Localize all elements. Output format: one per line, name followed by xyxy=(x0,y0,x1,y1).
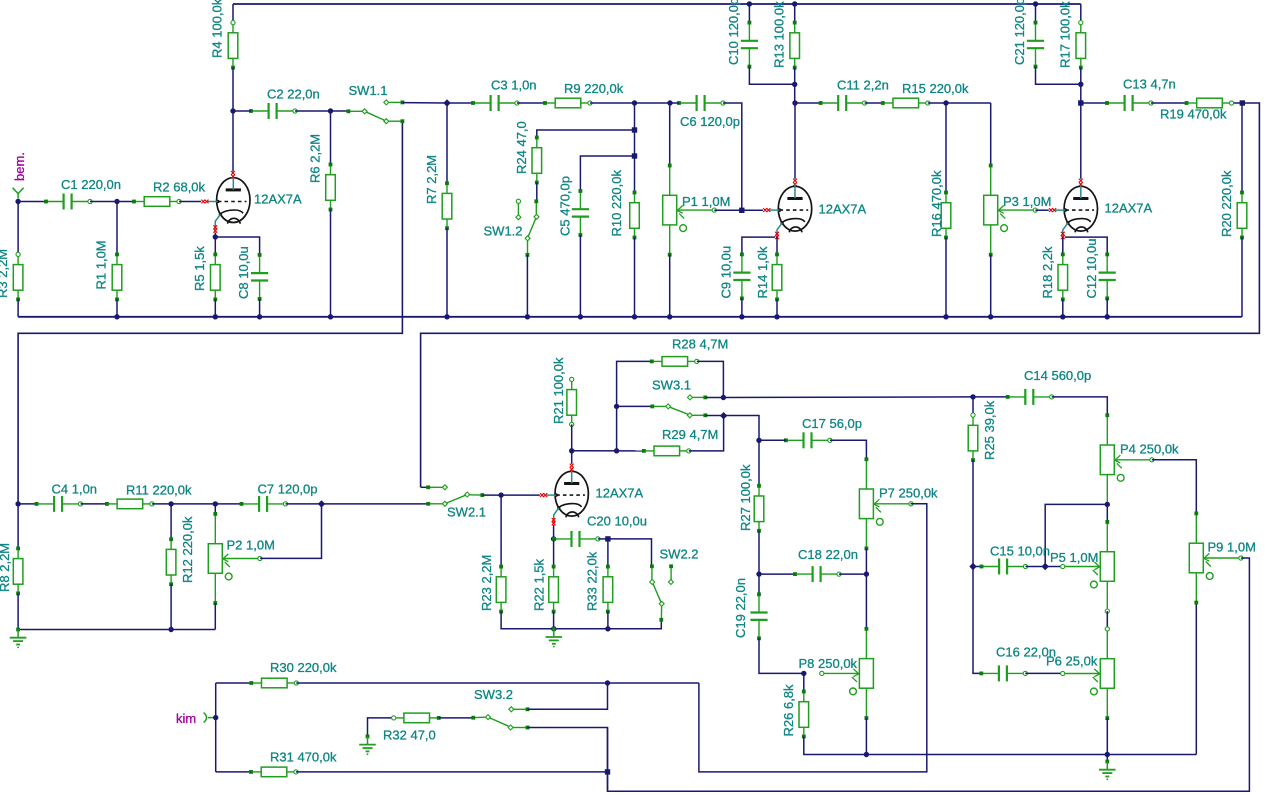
wire SW3.2 upper throw to R30 line xyxy=(528,683,608,709)
resistor R4 xyxy=(228,21,238,70)
junction C21 at top rail xyxy=(1033,1,1038,6)
wire SW1.1 to stage-3 routing (line A) xyxy=(18,121,402,504)
switch SW2.2 xyxy=(650,564,674,621)
wire R16 top xyxy=(945,103,947,193)
label C14 xyxy=(1024,368,1091,383)
junction C8 at rail xyxy=(257,314,262,319)
wire R25 column to C16 xyxy=(973,567,981,674)
label V2 xyxy=(819,202,867,217)
svg-text:P6 25,0k: P6 25,0k xyxy=(1046,654,1098,669)
svg-text:R15 220,0k: R15 220,0k xyxy=(902,81,969,96)
wire R13 bottom xyxy=(794,68,796,103)
resistor R28 xyxy=(650,357,699,367)
wire R8 top xyxy=(17,504,19,549)
wire P2 wiper riser xyxy=(260,504,321,559)
svg-text:R23 2,2M: R23 2,2M xyxy=(479,555,494,611)
wire P8 bottom xyxy=(865,718,867,755)
capacitor C14 xyxy=(1006,389,1054,405)
pin marker V4 grid xyxy=(540,493,547,497)
potentiometer P7 xyxy=(859,457,913,550)
junction P2 tap xyxy=(213,501,218,506)
potentiometer P4 xyxy=(1100,413,1154,506)
resistor R25 xyxy=(968,413,978,462)
wire input to C1 xyxy=(18,201,46,203)
wire R32 ground leg xyxy=(368,718,394,737)
wire R17 top xyxy=(1080,4,1082,23)
wire SW1.2 common to rail xyxy=(526,255,528,317)
svg-text:C3 1,0n: C3 1,0n xyxy=(491,78,537,93)
label C17 xyxy=(802,416,862,431)
wire P7 bottom xyxy=(865,548,867,574)
wire C1 to R2 xyxy=(90,201,134,203)
junction R25/C15 node xyxy=(969,563,976,570)
wire R1 top xyxy=(116,202,118,255)
switch SW3.2 xyxy=(471,707,529,730)
potentiometer P5 xyxy=(1061,520,1115,613)
svg-text:R11 220,0k: R11 220,0k xyxy=(126,483,192,498)
resistor R15 xyxy=(881,98,930,108)
junction P4 bottom node xyxy=(1105,502,1110,507)
wire P3 wiper to V3 grid xyxy=(1035,209,1049,211)
label R13 xyxy=(772,1,787,68)
potentiometer P2 xyxy=(208,512,262,605)
resistor R14 xyxy=(772,253,782,302)
junction R26/P8 wiper node xyxy=(801,671,806,676)
wire R7 top xyxy=(446,103,448,183)
svg-text:R28 4,7M: R28 4,7M xyxy=(672,337,728,352)
junction C17/R27 node xyxy=(756,438,761,443)
resistor R31 xyxy=(249,767,298,777)
wire C12 bottom xyxy=(1106,298,1108,316)
capacitor C21 xyxy=(1027,21,1044,69)
wire R20 top xyxy=(1241,103,1243,193)
wire feedback column xyxy=(617,361,652,450)
junction SW3.1 common tap xyxy=(614,404,619,409)
pin marker V3 grid xyxy=(1049,208,1056,212)
capacitor C6 xyxy=(677,95,725,111)
capacitor C7 xyxy=(240,496,288,512)
resistor R8 xyxy=(13,547,23,596)
label R30 xyxy=(270,660,337,675)
svg-text:C20 10,0u: C20 10,0u xyxy=(587,514,647,529)
switch SW3.1 xyxy=(650,395,707,418)
junction V3 plate node xyxy=(1078,100,1083,105)
wire C20 to junction xyxy=(598,538,608,540)
junction C21/R17 node xyxy=(1078,82,1083,87)
wire C3 to R9 xyxy=(517,102,545,104)
wire P3 top xyxy=(990,103,992,166)
junction C5 tap xyxy=(632,153,637,158)
svg-text:kim: kim xyxy=(176,711,196,726)
resistor R9 xyxy=(543,98,592,108)
label SW3.2 xyxy=(474,687,513,702)
wire P7 wiper return xyxy=(699,504,927,772)
wire R25 bottom xyxy=(972,460,974,566)
svg-text:C1 220,0n: C1 220,0n xyxy=(61,177,121,192)
label R23 xyxy=(479,555,494,611)
svg-text:R2 68,0k: R2 68,0k xyxy=(153,180,206,195)
junction R33 at ground line xyxy=(605,626,610,631)
junction R12 tap xyxy=(168,501,173,506)
wire node to C3 xyxy=(447,102,473,104)
label R5 xyxy=(192,246,207,291)
capacitor C11 xyxy=(819,95,867,111)
capacitor C8 xyxy=(251,253,268,301)
svg-text:C13 4,7n: C13 4,7n xyxy=(1123,77,1176,92)
resistor R29 xyxy=(642,446,691,456)
svg-text:C8 10,0u: C8 10,0u xyxy=(236,246,251,299)
wire R16 bottom xyxy=(945,238,947,317)
wire bottom common rail xyxy=(18,316,1242,318)
svg-text:R27 100,0k: R27 100,0k xyxy=(738,464,753,531)
junction R1 at rail xyxy=(114,314,119,319)
wire R12 top xyxy=(170,504,172,539)
pin marker V1 cathode xyxy=(213,225,217,232)
label C20 xyxy=(587,514,647,529)
wire C17 to P7 top xyxy=(830,440,867,459)
junction ground tap stage4 xyxy=(551,626,556,631)
capacitor C9 xyxy=(733,253,750,301)
svg-text:R20 220,0k: R20 220,0k xyxy=(1219,170,1234,237)
svg-text:P4 250,0k: P4 250,0k xyxy=(1120,442,1179,457)
label R19 xyxy=(1160,107,1227,122)
wire C18 to P8 column xyxy=(839,573,866,575)
label P9 xyxy=(1208,540,1256,555)
wire node to C18 xyxy=(759,573,795,575)
wire cathode to C9 xyxy=(742,237,775,254)
resistor R26 xyxy=(799,690,809,739)
label C11 xyxy=(837,78,889,93)
label R28 xyxy=(672,337,728,352)
wire R6 top xyxy=(330,111,332,165)
wire V4 cathode xyxy=(553,525,555,539)
junction R31/SW3.2 node xyxy=(605,769,610,774)
wire line B to SW2.1 upper throw xyxy=(421,486,429,488)
label R31 xyxy=(270,750,337,765)
wire R7 bottom xyxy=(446,228,448,317)
label kim xyxy=(176,711,196,726)
wire lower throw to C17 column xyxy=(705,416,759,441)
label R18 xyxy=(1040,246,1055,299)
potentiometer P1 xyxy=(663,164,717,257)
wire V3 plate node to C13 xyxy=(1081,102,1107,104)
junction V4 plate node xyxy=(569,448,574,453)
junction R12 at ground line xyxy=(168,627,173,632)
wire P1 bottom xyxy=(669,255,671,317)
wire V3 plate xyxy=(1080,103,1082,179)
junction kim node xyxy=(213,715,218,720)
label R20 xyxy=(1219,170,1234,237)
wire cathode to C8 xyxy=(215,237,259,255)
svg-text:R9 220,0k: R9 220,0k xyxy=(564,81,624,96)
resistor R16 xyxy=(941,191,951,240)
label R1 xyxy=(93,240,108,289)
pin marker V2 plate xyxy=(793,179,797,186)
svg-text:C9 10,0u: C9 10,0u xyxy=(719,246,734,299)
resistor R17 xyxy=(1076,21,1086,70)
potentiometer P6 xyxy=(1061,627,1115,720)
wire R9 to branch column xyxy=(590,102,670,104)
wire C2 left stub xyxy=(233,110,251,112)
wire R33 top xyxy=(607,539,609,567)
label R25 xyxy=(982,400,997,460)
resistor R21 xyxy=(567,377,577,426)
resistor R18 xyxy=(1058,253,1068,302)
label bem. xyxy=(12,152,27,181)
wire C20 node to SW2.2 xyxy=(608,539,652,566)
junction branch column top xyxy=(632,100,637,105)
wire R23 top xyxy=(500,495,502,566)
wire R30 line xyxy=(296,682,699,684)
wire R20 bottom xyxy=(1241,238,1243,317)
wire C10 top xyxy=(748,4,750,23)
label C4 xyxy=(52,482,98,497)
wire R8 bottom xyxy=(17,593,19,629)
pin marker V2 cathode xyxy=(775,232,779,239)
junction C15/P4-bottom node xyxy=(1042,563,1049,570)
svg-text:P8 250,0k: P8 250,0k xyxy=(799,656,858,671)
wire V1 cathode xyxy=(214,233,216,238)
wire cathode to C12 xyxy=(1065,237,1107,254)
svg-text:R33 22,0k: R33 22,0k xyxy=(585,551,600,611)
potentiometer P9 xyxy=(1189,512,1243,605)
junction C12 at rail xyxy=(1105,314,1110,319)
resistor R12 xyxy=(166,537,176,586)
resistor R6 xyxy=(326,163,336,212)
wire wiper to V2 grid xyxy=(714,209,763,211)
capacitor C13 xyxy=(1105,95,1153,111)
wire R11 to C7 xyxy=(152,503,242,505)
junction feedback column base xyxy=(614,448,619,453)
label R26 xyxy=(781,684,796,737)
wire R18 bottom xyxy=(1062,299,1064,316)
wire C14 to P4 xyxy=(1052,397,1108,415)
resistor R30 xyxy=(249,678,298,688)
svg-text:R22 1,5k: R22 1,5k xyxy=(531,558,546,611)
wire plate line xyxy=(572,450,644,452)
tube V3 xyxy=(1055,184,1098,238)
wire input to C4 xyxy=(18,503,36,505)
wire branch column xyxy=(634,103,636,193)
capacitor C17 xyxy=(784,432,832,448)
junction SW3.1 lower node xyxy=(720,412,727,419)
wire cathode to R18 xyxy=(1062,237,1064,254)
wire C19 top xyxy=(758,574,760,594)
resistor R1 xyxy=(112,253,122,302)
svg-text:R18 2,2k: R18 2,2k xyxy=(1040,246,1055,299)
capacitor C20 xyxy=(552,531,600,547)
junction C5 at rail xyxy=(578,314,583,319)
svg-text:SW2.2: SW2.2 xyxy=(660,547,699,562)
svg-text:R12 220,0k: R12 220,0k xyxy=(180,516,195,583)
junction R25/C14 node xyxy=(970,394,975,399)
resistor R27 xyxy=(754,484,764,533)
resistor R2 xyxy=(132,197,181,207)
label R2 xyxy=(153,180,206,195)
svg-text:12AX7A: 12AX7A xyxy=(596,486,644,501)
label R14 xyxy=(755,246,770,299)
wire P4 bottom to C15 column xyxy=(1045,504,1107,566)
svg-text:C14 560,0p: C14 560,0p xyxy=(1024,368,1091,383)
wire R3 top xyxy=(17,202,19,255)
svg-text:SW3.1: SW3.1 xyxy=(652,378,691,393)
wire stage4 ground line xyxy=(501,620,661,629)
ground G-stage4 xyxy=(546,627,563,648)
wire C15 to P5 wiper xyxy=(1026,566,1063,568)
wire P2 top stub xyxy=(214,504,216,514)
wire cathode to R14 xyxy=(776,237,778,254)
tube V4 xyxy=(546,469,589,523)
junction R13 at top rail xyxy=(792,1,797,6)
wire R23 bottom dogleg xyxy=(501,612,554,629)
wire P9 wiper return xyxy=(608,558,1250,791)
wire R10 bottom xyxy=(634,238,636,317)
resistor R24 xyxy=(532,136,542,185)
wire SW1.1 upper throw to R7 node xyxy=(402,102,447,104)
label C19 xyxy=(733,578,748,638)
wire C21 top xyxy=(1035,4,1037,23)
wire C8 bottom xyxy=(259,299,261,317)
label R6 xyxy=(308,134,323,183)
wire R28 right dogleg xyxy=(697,361,724,397)
svg-text:R31 470,0k: R31 470,0k xyxy=(270,750,337,765)
label C16 xyxy=(996,645,1056,660)
pin marker V3 plate xyxy=(1079,179,1083,186)
resistor R33 xyxy=(603,565,613,614)
label R3 xyxy=(0,249,10,298)
svg-text:SW1.2: SW1.2 xyxy=(484,224,523,239)
label C9 xyxy=(719,246,734,299)
capacitor C4 xyxy=(35,496,83,512)
junction R23 tap xyxy=(498,492,503,497)
label R9 xyxy=(564,81,624,96)
wire node to C17 xyxy=(759,439,786,441)
label P6 xyxy=(1046,654,1098,669)
label C5 xyxy=(558,176,573,236)
svg-text:R1 1,0M: R1 1,0M xyxy=(93,240,108,289)
svg-text:C5 470,0p: C5 470,0p xyxy=(558,176,573,236)
wire R27 top stub xyxy=(758,440,760,486)
wire C5 branch xyxy=(580,156,634,191)
wire R19 output to SW2.1 routing (line B) xyxy=(421,103,1260,487)
junction C18 left node xyxy=(756,571,761,576)
junction R18 at rail xyxy=(1060,314,1065,319)
svg-text:R21 100,0k: R21 100,0k xyxy=(551,357,566,424)
label R22 xyxy=(531,558,546,611)
wire R27 bottom xyxy=(758,531,760,574)
wire C4 to R11 xyxy=(81,503,107,505)
svg-text:SW1.1: SW1.1 xyxy=(349,83,388,98)
label R17 xyxy=(1058,1,1073,68)
wire C2 to SW1.1 node xyxy=(295,110,348,112)
resistor R11 xyxy=(105,499,154,509)
svg-text:bem.: bem. xyxy=(12,152,27,181)
wire R6 bottom xyxy=(330,210,332,317)
tube V1 xyxy=(207,176,250,230)
wire R29 right dogleg xyxy=(689,416,724,451)
svg-text:R19 470,0k: R19 470,0k xyxy=(1160,107,1227,122)
label R12 xyxy=(180,516,195,583)
label C3 xyxy=(491,78,537,93)
junction V2 plate node xyxy=(792,100,797,105)
ground G-stage3 xyxy=(10,628,27,649)
junction R7 at rail xyxy=(444,314,449,319)
switch SW2.1 xyxy=(426,485,484,507)
junction SW1.2 at rail xyxy=(525,314,530,319)
label R8 xyxy=(0,543,12,592)
wire R14 bottom xyxy=(776,299,778,316)
label C21 xyxy=(1012,0,1027,65)
label C1 xyxy=(61,177,121,192)
pin marker V4 cathode xyxy=(552,518,556,525)
wire C16 to P6 wiper xyxy=(1025,672,1062,674)
capacitor C5 xyxy=(572,189,589,237)
svg-text:C17 56,0p: C17 56,0p xyxy=(802,416,862,431)
svg-text:SW2.1: SW2.1 xyxy=(447,505,486,520)
wire R33 bottom xyxy=(607,612,609,629)
label P4 xyxy=(1120,442,1179,457)
capacitor C10 xyxy=(741,21,758,69)
wire V2 plate node to C11 xyxy=(795,102,821,104)
svg-text:R5 1,5k: R5 1,5k xyxy=(192,246,207,291)
label R4 xyxy=(210,0,225,58)
junction C2/R6/SW1.1 node xyxy=(328,108,333,113)
junction R7/SW1.1 node xyxy=(443,99,450,106)
resistor R19 xyxy=(1185,98,1234,108)
svg-text:R25 39,0k: R25 39,0k xyxy=(982,400,997,460)
svg-text:C6 120,0p: C6 120,0p xyxy=(680,114,740,129)
label C8 xyxy=(236,246,251,299)
svg-text:12AX7A: 12AX7A xyxy=(254,192,302,207)
wire ground stub xyxy=(1106,755,1108,762)
svg-text:R17 100,0k: R17 100,0k xyxy=(1058,1,1073,68)
svg-text:P5 1,0M: P5 1,0M xyxy=(1050,550,1098,565)
wire R21 bottom xyxy=(571,424,573,450)
wire R4 bottom to plate node xyxy=(232,68,234,111)
wire node to C15 xyxy=(973,566,982,568)
pin marker V1 plate xyxy=(231,171,235,178)
wire C13 to R19 xyxy=(1151,102,1187,104)
label V4 xyxy=(596,486,644,501)
svg-text:C2 22,0n: C2 22,0n xyxy=(267,87,320,102)
svg-text:P7 250,0k: P7 250,0k xyxy=(879,486,938,501)
label C7 xyxy=(258,482,318,497)
wire R4 top xyxy=(232,4,234,23)
wire P3 bottom xyxy=(990,255,992,317)
svg-text:R14 1,0k: R14 1,0k xyxy=(755,246,770,299)
resistor R22 xyxy=(549,565,559,614)
resistor R5 xyxy=(211,253,221,302)
junction V4 cathode node xyxy=(551,536,556,541)
wire upper throw line to C14 xyxy=(705,396,1007,399)
wire C10 bottom dogleg xyxy=(749,67,794,85)
svg-text:R16 470,0k: R16 470,0k xyxy=(929,170,944,237)
ground G-bias xyxy=(1099,760,1116,781)
capacitor C1 xyxy=(44,194,92,210)
wire P9 bottom column xyxy=(1195,603,1197,755)
wire kim column xyxy=(215,683,217,772)
junction SW3.1 upper node xyxy=(721,395,726,400)
resistor R10 xyxy=(630,191,640,240)
svg-text:P2 1,0M: P2 1,0M xyxy=(227,538,275,553)
svg-text:C10 120,0p: C10 120,0p xyxy=(726,0,741,65)
label R11 xyxy=(126,483,192,498)
svg-text:C7 120,0p: C7 120,0p xyxy=(258,482,318,497)
wire cathode to R22 xyxy=(553,539,555,567)
wire C6 right drop xyxy=(723,103,742,210)
junction SW3.2 upper tap xyxy=(605,680,610,685)
svg-text:C15 10,0n: C15 10,0n xyxy=(990,544,1050,559)
